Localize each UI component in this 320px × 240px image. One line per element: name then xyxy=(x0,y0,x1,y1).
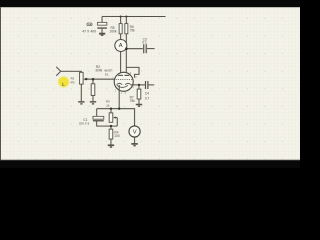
capacitor C2 bottom plate xyxy=(97,27,107,29)
capacitor C1 top plate xyxy=(93,116,104,119)
resistor R4 lead xyxy=(110,126,112,129)
resistor R2 lead xyxy=(92,79,94,84)
svg-text:V: V xyxy=(133,130,137,136)
resistor R6 body xyxy=(125,24,128,34)
heater arc xyxy=(117,85,128,87)
capacitor C4 plates xyxy=(145,81,147,89)
wire cathode down from tube xyxy=(118,85,120,109)
ground below R2 xyxy=(90,101,96,103)
wire R2 to ground xyxy=(92,95,94,101)
voltmeter U-V circle xyxy=(129,126,140,137)
svg-text:C4: C4 xyxy=(145,92,149,96)
wire R6 down to anode node xyxy=(125,34,127,76)
wire voltmeter to ground xyxy=(134,137,136,143)
potentiometer R3 body xyxy=(109,113,113,122)
triode U1 envelope xyxy=(114,72,133,91)
resistor R7 lead xyxy=(138,85,140,89)
junction dot rail R6 xyxy=(125,15,127,17)
resistor R4 body xyxy=(109,129,113,139)
wire R1 to ground xyxy=(80,84,82,101)
cathode arc left xyxy=(117,83,123,84)
capacitor C2 top plate xyxy=(97,22,106,25)
wire cathode2 from tube xyxy=(131,84,145,86)
wire after C3 open end xyxy=(147,48,155,50)
capacitor C1 bottom plate xyxy=(93,120,104,122)
wire after C4 open end xyxy=(148,84,154,86)
junction dot R3 top xyxy=(110,107,112,109)
ground below R4 xyxy=(108,144,114,146)
wire anode node to coupling cap xyxy=(126,48,142,50)
R3 wiper arrowhead xyxy=(113,116,115,118)
svg-text:47 X 400: 47 X 400 xyxy=(82,30,96,34)
wire C2 to ground xyxy=(101,29,103,33)
R1 wiper arrowhead xyxy=(84,78,86,80)
svg-text:47k: 47k xyxy=(70,81,75,85)
anode bar right xyxy=(124,74,129,76)
resistor R5 body xyxy=(119,24,122,34)
R3 wiper arrow xyxy=(115,117,117,119)
grid dashes xyxy=(116,78,133,80)
svg-text:D1.: D1. xyxy=(105,73,109,77)
svg-text:1k: 1k xyxy=(106,103,110,107)
potentiometer R3 lead xyxy=(110,109,112,113)
capacitor C3 plates xyxy=(144,44,147,53)
wire: B+ top rail xyxy=(102,15,165,17)
anode bar left xyxy=(118,74,123,76)
bottom letterbox bar xyxy=(0,159,300,162)
R1 wiper arrow xyxy=(85,78,87,80)
svg-text:75k: 75k xyxy=(130,99,136,103)
ground below C2 xyxy=(99,33,105,35)
junction dot rail R5 xyxy=(120,15,122,17)
svg-text:0.7: 0.7 xyxy=(145,96,150,100)
wire grid2 strap box xyxy=(126,67,139,77)
wire R4 to ground xyxy=(110,139,112,145)
junction dot wiper R1 xyxy=(85,78,87,80)
wire cathode bus xyxy=(97,109,135,126)
value box C2 xyxy=(87,23,92,26)
capacitor C1 lead xyxy=(96,109,98,117)
junction dot anode node xyxy=(125,47,128,50)
resistor R7 body xyxy=(137,89,141,99)
junction dot cathode2 R7 xyxy=(138,84,140,86)
wire C1 to bottom bus xyxy=(97,121,118,126)
ground below R7 xyxy=(136,103,142,105)
cathode arc right xyxy=(125,83,131,84)
capacitor C2 lead from rail xyxy=(101,16,103,22)
svg-text:220 X 6: 220 X 6 xyxy=(79,121,90,125)
input fork terminal xyxy=(56,67,61,76)
svg-text:75k: 75k xyxy=(130,29,136,33)
ammeter U-A circle xyxy=(115,39,127,51)
schematic background xyxy=(0,7,300,161)
svg-text:300k: 300k xyxy=(95,68,102,72)
wire R3 wiper down xyxy=(116,118,118,127)
resistor R2 body xyxy=(91,84,95,96)
ground below R1 xyxy=(78,101,84,103)
svg-text:A: A xyxy=(119,43,123,49)
svg-text:6Н2П: 6Н2П xyxy=(104,68,112,72)
wire input to R1 xyxy=(61,71,82,72)
resistor R5 lead xyxy=(120,16,122,23)
wire ammeter to tube anode xyxy=(120,51,122,75)
resistor R6 lead xyxy=(125,16,127,23)
top letterbox bar xyxy=(0,0,300,7)
node marker yellow xyxy=(57,76,70,89)
ground below voltmeter xyxy=(131,143,137,145)
svg-text:0.1: 0.1 xyxy=(142,40,147,44)
junction dot R3 bottom xyxy=(110,125,112,127)
junction dot R2 top xyxy=(92,78,95,81)
wire R5 to ammeter xyxy=(120,34,122,40)
svg-text:200k: 200k xyxy=(110,30,117,34)
svg-text:100: 100 xyxy=(114,134,120,138)
wire R1 wiper to grid xyxy=(86,78,114,80)
junction dot cathode lead xyxy=(118,107,120,109)
wire R7 to ground xyxy=(138,99,140,104)
potentiometer R1 body xyxy=(80,72,84,84)
left screen edge xyxy=(0,7,1,160)
